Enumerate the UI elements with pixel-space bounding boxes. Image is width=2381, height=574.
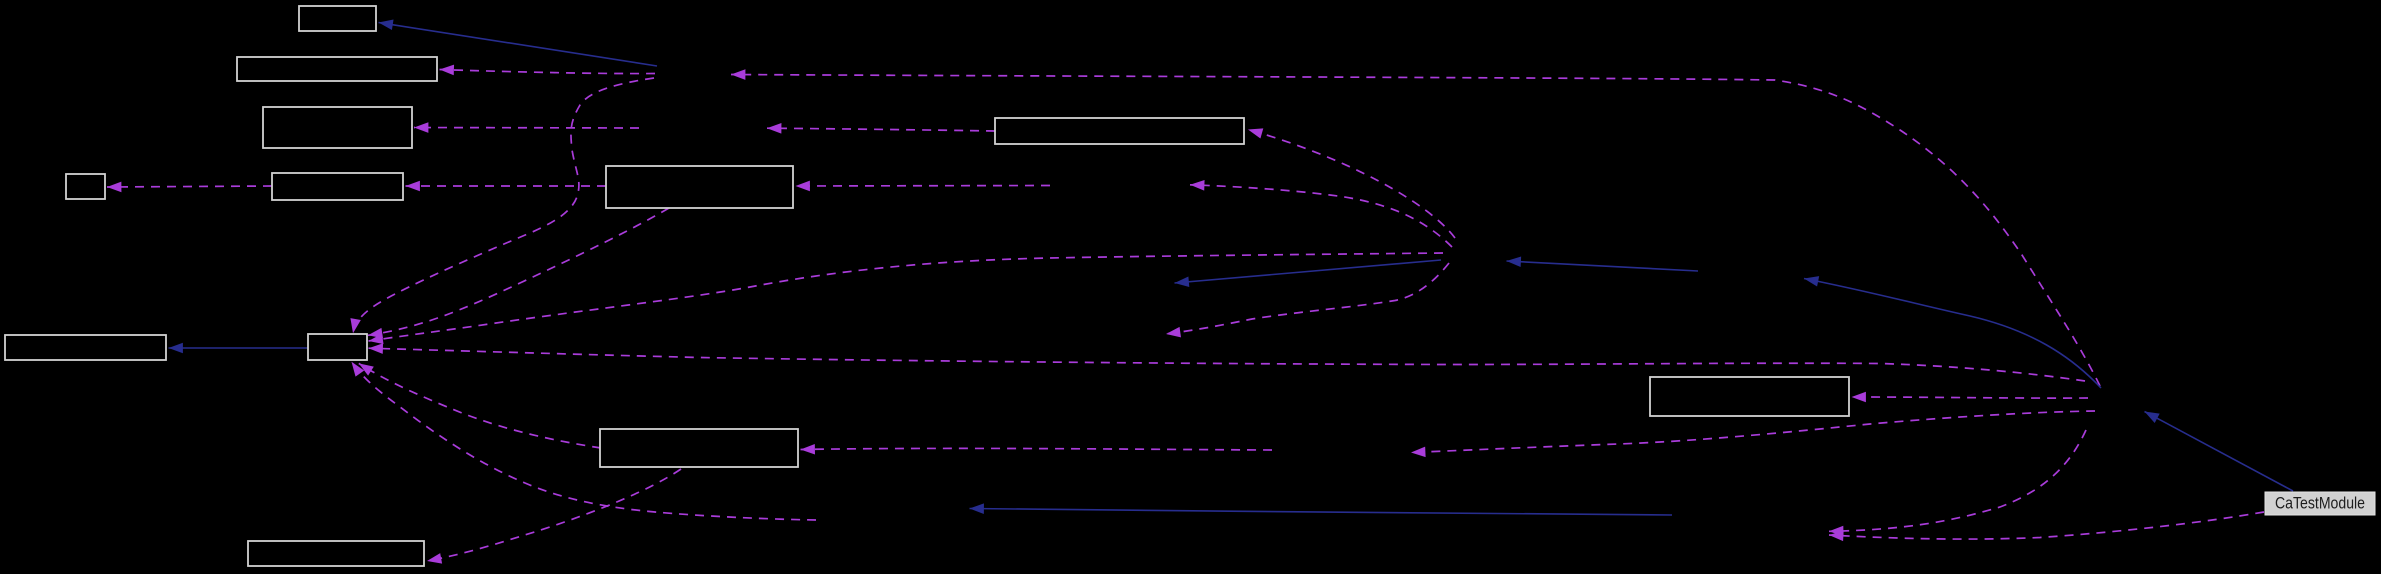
- node box B: [237, 57, 437, 81]
- edge E->D dashed: [107, 186, 272, 187]
- edge M->N8 dashed: [1829, 512, 2264, 539]
- edge N1->B dashed: [440, 70, 656, 74]
- edge N3->N11 dashed: [1190, 185, 1452, 247]
- edge N7->N8 dashed: [1829, 430, 2086, 531]
- node box C: [263, 107, 412, 148]
- edge N8->N9 solid blue: [970, 509, 1673, 516]
- node box L: [248, 541, 424, 566]
- edge J->I dashed: [359, 363, 601, 448]
- node box A: [299, 6, 376, 31]
- edge N1->I S-curve dashed: [353, 78, 654, 333]
- node box K: [1650, 377, 1849, 416]
- node box D: [66, 174, 105, 199]
- edge N3->G dashed: [1248, 130, 1455, 239]
- node box J: [600, 429, 798, 467]
- node box F: [606, 166, 793, 208]
- edge N6->J dashed: [801, 448, 1273, 450]
- edge N7->K dashed: [1852, 397, 2089, 398]
- edge G->N2 dashed: [767, 128, 995, 131]
- node box CaTestModule: [2265, 492, 2375, 515]
- edge F->I dashed: [368, 208, 669, 335]
- edge N9->I dashed: [352, 362, 817, 520]
- edge N3->I curve Q dashed: [369, 253, 1444, 341]
- edge N7->N1 long top arc dashed: [731, 75, 2100, 387]
- edge N7->N5 solid blue: [1804, 279, 2101, 389]
- edge N11->F dashed: [796, 185, 1051, 188]
- edge J->L dashed: [427, 469, 681, 561]
- svg-text:CaTestModule: CaTestModule: [2275, 494, 2365, 513]
- edge I->H solid blue: [169, 347, 309, 349]
- edge N2->C dashed: [414, 127, 639, 130]
- node box E: [272, 173, 403, 200]
- node box I: [308, 334, 367, 360]
- edge N7->I long dashed: [369, 348, 2086, 381]
- node box H: [5, 335, 166, 360]
- edge F->E dashed: [406, 185, 607, 187]
- edge N7->N6 dashed: [1411, 411, 2095, 453]
- edge M->N7 solid blue: [2145, 412, 2294, 492]
- edge N3->N12 dashed: [1166, 263, 1449, 334]
- edge N1->A solid blue: [379, 23, 658, 67]
- node box G: [995, 118, 1244, 144]
- edge N5->N3 solid blue: [1507, 261, 1699, 271]
- edge N3->N4 solid blue: [1175, 260, 1442, 283]
